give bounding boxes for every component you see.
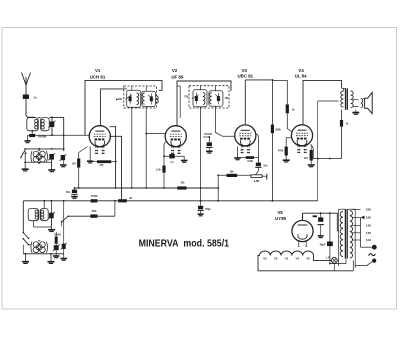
wire 40uF to transformer bottom [330, 263, 346, 265]
wire V4 anode top [303, 80, 342, 125]
wire IFT1 top stubs [131, 86, 133, 90]
wire L2 bottom [25, 161, 51, 163]
resistor 120 V4 cathode [310, 146, 312, 150]
tube V3 UBC81 [235, 125, 256, 146]
pilot lamp LP [331, 258, 337, 264]
svg-text:470k: 470k [278, 150, 284, 153]
resistor 47/3M on B2 [91, 199, 98, 202]
power transformer core [344, 209, 346, 259]
svg-text:1M4/2: 1M4/2 [54, 233, 62, 236]
resistor 1k anode stopper [341, 110, 343, 121]
coil L3 oscillator primary [28, 209, 39, 221]
mains taps [352, 209, 360, 211]
coil L3 oscillator secondary [40, 209, 48, 221]
capacitor 10n coupling [257, 136, 259, 163]
power transformer secondary winding [350, 211, 353, 259]
capacitor 50uF V5 [320, 213, 322, 217]
wire V4 anode side [311, 144, 342, 158]
svg-text:V1: V1 [95, 68, 101, 73]
wire V2 cathode [164, 142, 166, 157]
capacitor 1n5 V2 cathode [169, 154, 174, 158]
wire IFT1 to B1 second [145, 106, 147, 188]
output transformer primary [341, 91, 344, 107]
resistor 63 on B2 [118, 199, 127, 202]
capacitor padder X [54, 245, 59, 250]
output transformer core [345, 88, 347, 110]
ground antenna resistor [27, 135, 29, 140]
svg-text:50n: 50n [66, 191, 71, 194]
trimmer capacitor C-ant3 [61, 155, 65, 160]
switch S1 antenna band [21, 150, 25, 157]
wire bus B2 [23, 200, 317, 202]
svg-text:220: 220 [366, 208, 371, 212]
mains pin 2 [372, 259, 376, 263]
svg-text:UF 89: UF 89 [171, 74, 184, 79]
wire IFT2 to B1 [200, 107, 202, 201]
trimmer capacitor C-osc2 [62, 244, 66, 249]
wire lamp bottom [333, 263, 335, 271]
ground V2 cathode [183, 156, 185, 160]
svg-text:MINERVA mod. 585/1: MINERVA mod. 585/1 [139, 238, 230, 249]
tube V5 UY85 [292, 220, 313, 241]
wire B1 right corner down to B2 [217, 187, 219, 189]
wire V5 plate line [303, 213, 339, 231]
wire V2 screen up [179, 86, 181, 118]
trimmer capacitor C-osc1 [49, 213, 54, 219]
ground trimmer C-osc1 [48, 230, 55, 232]
svg-text:40μF: 40μF [320, 243, 326, 246]
wire IFT2 to V3 grid [216, 106, 235, 136]
IFT1 secondary unit [142, 91, 156, 106]
capacitor 50uF under B2 [200, 201, 202, 206]
wire secondary top bus [38, 116, 40, 118]
svg-text:475: 475 [100, 164, 105, 167]
svg-text:V3: V3 [242, 68, 248, 73]
tube V1 UCH81 [89, 126, 110, 147]
wire grid return line [28, 134, 91, 136]
svg-text:V5: V5 [306, 256, 310, 260]
ground trimmer C-ant3 [60, 165, 67, 167]
resistor screen 1k [286, 104, 289, 113]
antenna coil L1 secondary [41, 118, 50, 131]
wire 10k AVC line [218, 174, 251, 176]
tube V4 UL84 [291, 125, 312, 146]
trimmer capacitor C-ant2 [49, 154, 54, 160]
power transformer frame [338, 209, 340, 266]
IFT1 primary unit [127, 90, 141, 107]
svg-text:10n/20: 10n/20 [204, 133, 212, 136]
switch S2b oscillator [23, 239, 28, 245]
svg-text:V4: V4 [298, 68, 304, 73]
capacitor 40uF [327, 242, 333, 247]
ground left column [24, 152, 26, 169]
wire V1 top anode [100, 89, 126, 126]
svg-text:V2: V2 [172, 68, 178, 73]
tube V2 UF89 [165, 126, 186, 147]
svg-text:450/3M: 450/3M [38, 136, 46, 139]
wire speaker links [353, 99, 359, 101]
wire bus down to band area [63, 117, 65, 151]
wire V1 AVC loop [85, 80, 162, 135]
svg-text:47/3M: 47/3M [91, 195, 98, 198]
ground output transformer [355, 110, 357, 112]
ground 470k [283, 160, 290, 162]
svg-text:2n: 2n [34, 96, 37, 100]
wire osc feed branch [68, 215, 115, 217]
wire lamp to transformer [337, 259, 338, 261]
svg-text:759: 759 [184, 96, 189, 99]
ground V1 cathode [89, 147, 91, 161]
wire tap to mains pin1 [361, 246, 372, 248]
capacitor reservoir small dash [313, 215, 317, 217]
ground L4 mid [50, 254, 52, 261]
coil L2 band [33, 151, 39, 157]
wire V2 anode up [177, 81, 231, 126]
wire V1 pin right to B2 [110, 136, 121, 201]
svg-text:10n: 10n [263, 165, 268, 168]
svg-text:V1: V1 [285, 256, 289, 260]
wire L3 bottom [34, 226, 52, 228]
resistor 475 V1 cathode [90, 161, 97, 163]
svg-text:UBC 81: UBC 81 [237, 74, 253, 79]
wire B+ rail to screen [272, 80, 287, 104]
IF transformer IFT1 shield box [124, 86, 157, 108]
speaker [365, 92, 373, 113]
wire heater left return [258, 256, 353, 271]
resistor 1M grid leak V1 [78, 153, 80, 189]
wire IFT2 top stubs [200, 86, 202, 90]
svg-text:V3: V3 [263, 256, 267, 260]
switch S3 band osc [62, 216, 69, 222]
svg-text:V4: V4 [296, 256, 300, 260]
tap selector arrow [361, 216, 365, 220]
resistor 0,5M V3 [246, 156, 254, 159]
svg-text:L.P: L.P [326, 256, 330, 259]
wire to padder coil [29, 244, 32, 246]
svg-text:250k: 250k [275, 129, 281, 132]
ground L4 left [25, 254, 27, 261]
power transformer primary winding [340, 212, 343, 257]
resistor 50/6 osc feed [90, 214, 97, 217]
svg-text:1M: 1M [72, 163, 75, 166]
wire band bus [25, 148, 64, 150]
wire heater right to lamp [314, 256, 332, 261]
coil L4 oscillator padder [33, 242, 39, 248]
svg-text:0,5M: 0,5M [254, 180, 259, 183]
wire HT drop 40uF [329, 213, 331, 241]
wire IFT1 to V2 grid [146, 133, 166, 135]
svg-text:▶459: ▶459 [115, 98, 122, 101]
resistor 450/3M antenna [29, 134, 35, 137]
svg-text:UCH 81: UCH 81 [90, 74, 106, 79]
svg-text:V5: V5 [277, 210, 283, 215]
wire AVC corner down [217, 175, 219, 201]
svg-text:125: 125 [366, 231, 371, 235]
wire V3 anode loop to B+ [245, 79, 272, 81]
wire L4 bottom bus [23, 253, 63, 255]
capacitor 2n antenna series [23, 95, 29, 99]
wire feedback drop [317, 101, 319, 201]
antenna [22, 73, 31, 86]
heater chain coils [260, 251, 314, 256]
trimmer capacitor C-ant1 [50, 121, 55, 127]
antenna coil L1 primary [27, 118, 39, 131]
IFT1 tertiary bumps [157, 96, 159, 103]
wire V4 grid line [286, 138, 291, 147]
resistor 2,2k V2 [163, 156, 165, 165]
potentiometer 0,5M volume [251, 175, 262, 178]
mains tilde [369, 254, 376, 256]
ground V3 cathode [237, 147, 239, 158]
svg-text:50/6: 50/6 [92, 210, 97, 213]
wire osc stub right box [43, 201, 45, 209]
ground trimmer C-ant2 [48, 170, 55, 172]
IFT2 primary unit [193, 90, 207, 107]
wire IFT1 to B1 [131, 107, 133, 188]
resistor 250k anode load [271, 80, 273, 125]
IF transformer IFT2 shield box [189, 86, 229, 108]
svg-text:2,2k: 2,2k [156, 168, 161, 171]
resistor 10k [227, 174, 238, 177]
wire mains pin2 [355, 262, 372, 266]
mains pin 1 [372, 245, 376, 249]
wire osc left drop [22, 201, 24, 233]
wire bus B1 [75, 187, 219, 189]
speaker voice coil [361, 99, 363, 108]
svg-text:120: 120 [304, 157, 309, 160]
svg-text:110: 110 [366, 238, 371, 242]
ground C-osc2 [60, 259, 66, 261]
wire antenna to coupling cap [25, 85, 27, 95]
svg-text:151: 151 [225, 97, 230, 100]
svg-text:UY85: UY85 [275, 216, 287, 221]
svg-text:10k: 10k [230, 171, 235, 174]
wire transformer bottom right [352, 261, 354, 271]
svg-text:50μF: 50μF [205, 209, 211, 211]
resistor 22k on B1 [177, 186, 186, 189]
wire V1 pin right to B1 [110, 127, 116, 188]
switch S2a oscillator [23, 233, 28, 239]
ground V4 cathode [308, 165, 315, 167]
svg-text:0,5M: 0,5M [247, 160, 252, 163]
output transformer secondary [351, 91, 354, 108]
svg-text:UL 84: UL 84 [295, 73, 307, 78]
svg-text:145: 145 [366, 224, 371, 228]
svg-text:160: 160 [366, 216, 371, 220]
wire cap to antenna coil [26, 99, 35, 117]
svg-text:22k: 22k [180, 182, 185, 185]
capacitor 50n under B1 [74, 187, 76, 189]
svg-text:V2: V2 [274, 256, 278, 260]
IFT2 secondary unit [209, 91, 223, 106]
resistor 470k V4 grid [285, 147, 288, 156]
